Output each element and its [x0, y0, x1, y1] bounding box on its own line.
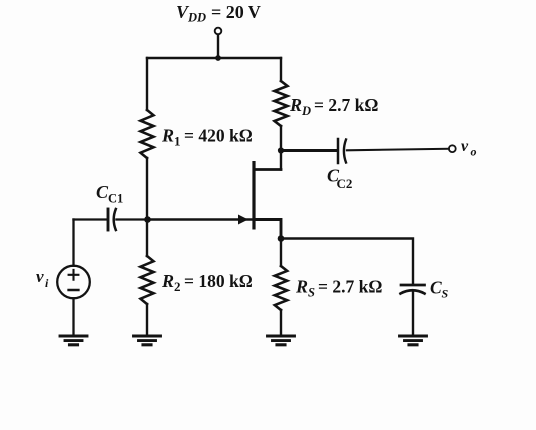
wire vi to CC1 [74, 218, 107, 220]
svg-text:S: S [442, 287, 449, 301]
capacitor CC1 curved plate [114, 209, 116, 230]
wire drain node to CC2 [281, 149, 337, 152]
node drain junction [278, 147, 284, 153]
svg-text:R: R [295, 277, 308, 297]
svg-text:= 2.7 kΩ: = 2.7 kΩ [314, 95, 378, 115]
svg-text:2: 2 [174, 279, 181, 294]
transistor Q1 channel bar [252, 161, 255, 230]
wire CC1 to gate node [116, 218, 147, 220]
wire rail down to RD [280, 58, 282, 81]
svg-text:R: R [289, 95, 302, 115]
wire CS to ground [412, 292, 414, 336]
svg-text:= 20 V: = 20 V [211, 2, 261, 22]
svg-text:R: R [161, 126, 174, 146]
wire RS to ground [280, 310, 282, 335]
wire RD to drain node [280, 126, 282, 170]
capacitor CS top plate [401, 284, 425, 287]
svg-text:C2: C2 [337, 176, 353, 191]
svg-text:v: v [36, 267, 44, 286]
svg-text:C1: C1 [108, 192, 123, 206]
capacitor CC2 straight plate [337, 139, 340, 163]
wire VDD terminal to rail [217, 35, 219, 58]
wire source node to RS [280, 239, 282, 267]
resistor RD [275, 81, 288, 126]
capacitor CS curved plate [401, 290, 425, 293]
source vi circle [57, 266, 90, 299]
capacitor CC1 straight plate [107, 209, 110, 230]
resistor R2 [141, 256, 154, 304]
node source junction [278, 235, 285, 242]
wire rail down to R1 [146, 58, 148, 110]
ground below RS [268, 335, 295, 338]
resistor RS [275, 266, 287, 310]
transistor Q1 source lead [256, 220, 282, 239]
wire vi bottom to ground [72, 298, 74, 335]
svg-text:C: C [430, 278, 442, 298]
wire gate [148, 218, 253, 220]
ground below R2 [134, 335, 161, 338]
resistor R1 [141, 110, 154, 158]
ground below CS [400, 335, 427, 338]
svg-text:= 2.7 kΩ: = 2.7 kΩ [318, 277, 382, 297]
svg-text:= 420 kΩ: = 420 kΩ [184, 126, 253, 146]
svg-text:1: 1 [174, 134, 181, 149]
transistor Q1 gate arrow [238, 215, 248, 225]
svg-text:R: R [161, 271, 174, 291]
svg-text:v: v [461, 138, 469, 155]
wire R2 to ground [146, 304, 148, 335]
source vi minus sign [69, 289, 79, 292]
wire vi top [72, 220, 74, 266]
wire top rail [147, 57, 281, 59]
capacitor CC2 curved plate [344, 140, 346, 163]
wire R1 to gate node [146, 158, 148, 256]
ground below vi [60, 335, 87, 338]
source vi plus sign [69, 270, 79, 280]
node VDD terminal [215, 28, 222, 35]
node gate junction [144, 216, 151, 223]
svg-text:= 180 kΩ: = 180 kΩ [184, 271, 253, 291]
transistor Q1 drain lead [256, 168, 282, 171]
node vo terminal [449, 145, 456, 152]
wire CC2 to output [347, 149, 449, 151]
wire source node to CS [281, 239, 413, 285]
svg-text:DD: DD [187, 11, 206, 25]
svg-text:o: o [471, 145, 477, 159]
svg-text:D: D [301, 104, 311, 118]
svg-text:S: S [308, 286, 315, 300]
junction on rail [215, 55, 221, 61]
